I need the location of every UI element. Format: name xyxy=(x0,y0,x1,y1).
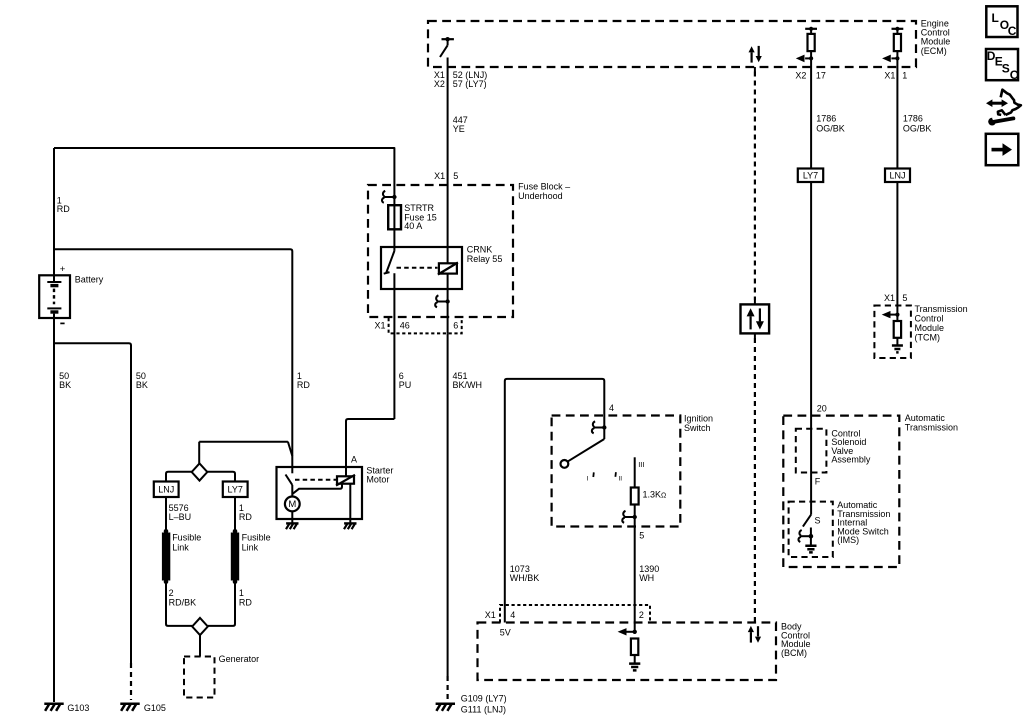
fuse STRTR 15 40A xyxy=(388,203,437,231)
serial data dashed line upper xyxy=(754,67,756,304)
svg-text:Fusible: Fusible xyxy=(172,533,201,543)
starter solenoid dashed link xyxy=(295,479,337,481)
ground G109 G111 xyxy=(436,693,507,714)
ECM driver output X2-17 xyxy=(796,27,817,67)
svg-text:5V: 5V xyxy=(500,628,511,638)
resistor 1.3K xyxy=(631,488,666,505)
wire branch to generator circuit xyxy=(199,442,292,456)
data link connector box xyxy=(741,304,770,333)
wire 447 YE from ECM to fuse block xyxy=(448,58,468,186)
wire relay coil to connector 6 xyxy=(447,274,449,334)
battery minus label xyxy=(60,322,64,324)
ECM internal switch (crank output) xyxy=(440,37,454,57)
generator box xyxy=(184,654,259,698)
relay coil xyxy=(438,263,458,275)
IMS terminal clip xyxy=(798,530,813,542)
splice diamond upper xyxy=(192,463,208,480)
wire diamond to LY7 xyxy=(207,472,235,482)
svg-text:17: 17 xyxy=(816,71,826,81)
ECM serial data double-arrow xyxy=(749,46,762,63)
wire resistor to BCM xyxy=(634,505,636,632)
svg-text:RD: RD xyxy=(239,597,252,607)
wire G105 dashed segment xyxy=(130,663,132,700)
label 1390 WH xyxy=(639,564,659,583)
svg-text:Transmission: Transmission xyxy=(905,423,958,433)
connector X1 dotted box under fuse block xyxy=(389,318,462,333)
wire negative branch to G105 xyxy=(54,343,131,663)
wire fuse to relay xyxy=(393,229,395,251)
label BCM xyxy=(781,622,811,658)
svg-text:Fusible: Fusible xyxy=(242,533,271,543)
relay switch xyxy=(384,251,395,274)
starter motor box xyxy=(277,467,363,519)
svg-text:Transmission: Transmission xyxy=(915,304,968,314)
svg-text:G103: G103 xyxy=(67,703,89,713)
ECM box (Engine Control Module) xyxy=(428,21,916,67)
wire diamond to LNJ xyxy=(166,472,192,482)
wire right link to lower diamond xyxy=(208,582,235,626)
svg-text:5: 5 xyxy=(639,530,644,540)
BCM box xyxy=(478,623,777,681)
fusible link right xyxy=(231,529,271,584)
wire LY7 to fusible link xyxy=(234,497,236,531)
pin labels X1 46 6 xyxy=(375,321,459,331)
svg-text:2: 2 xyxy=(639,610,644,620)
svg-text:BK/WH: BK/WH xyxy=(453,380,483,390)
wire to generator xyxy=(199,635,201,656)
svg-text:RD/BK: RD/BK xyxy=(169,597,197,607)
LOC icon xyxy=(986,6,1017,38)
svg-text:WH/BK: WH/BK xyxy=(510,573,540,583)
pin labels X1 52 / X2 57 xyxy=(434,70,487,89)
relay actuating dashed link xyxy=(397,267,438,269)
wire 447 into relay coil xyxy=(447,185,449,263)
ignition switch box xyxy=(552,416,681,527)
wire LNJ column down to TCM xyxy=(896,182,898,315)
pin label X1 1 xyxy=(884,71,907,81)
svg-text:G109 (LY7): G109 (LY7) xyxy=(461,693,507,703)
ignition switch arm and wiper xyxy=(561,428,605,468)
svg-text:X1: X1 xyxy=(485,610,496,620)
ground G105 xyxy=(120,703,166,713)
svg-text:20: 20 xyxy=(817,403,827,413)
position mark I xyxy=(587,472,594,482)
svg-text:I: I xyxy=(587,476,589,483)
svg-text:CRNK: CRNK xyxy=(467,245,493,255)
svg-text:Switch: Switch xyxy=(684,423,711,433)
label automatic transmission xyxy=(905,413,958,433)
svg-text:PU: PU xyxy=(399,380,412,390)
svg-text:4: 4 xyxy=(510,610,515,620)
svg-text:A: A xyxy=(351,454,357,464)
IMS contact stub xyxy=(810,528,812,537)
fuse block underhood box xyxy=(368,185,513,317)
wire battery negative to G103 xyxy=(53,318,55,702)
svg-text:C: C xyxy=(1008,24,1017,38)
svg-text:Ω: Ω xyxy=(661,492,666,499)
TCM signal ground xyxy=(892,346,903,353)
diagnostic icon xyxy=(986,90,1021,126)
label 5576 L-BU xyxy=(169,503,192,522)
svg-text:Assembly: Assembly xyxy=(831,455,871,465)
svg-text:Generator: Generator xyxy=(219,654,260,664)
wire 451 dashed to ground xyxy=(447,676,449,700)
svg-text:M: M xyxy=(288,499,296,510)
svg-text:BK: BK xyxy=(136,380,148,390)
svg-text:G111 (LNJ): G111 (LNJ) xyxy=(461,704,506,714)
wire LY7 column down to transmission xyxy=(810,182,812,515)
control solenoid valve assembly box xyxy=(796,429,827,473)
connector LNJ left xyxy=(154,482,179,498)
BCM resistor xyxy=(631,639,638,664)
label TCM xyxy=(915,304,968,343)
svg-text:5: 5 xyxy=(902,293,907,303)
svg-text:57 (LY7): 57 (LY7) xyxy=(453,79,487,89)
BCM serial data double-arrow xyxy=(748,626,761,643)
svg-text:RD: RD xyxy=(57,204,70,214)
label control solenoid valve assembly xyxy=(831,428,871,464)
wire relay switch to connector 46 xyxy=(393,273,395,419)
wire BCM 5V feed to ignition switch xyxy=(505,379,605,623)
wire battery feed to fuse xyxy=(54,148,394,205)
wire left link to lower diamond xyxy=(166,582,192,626)
svg-text:Underhood: Underhood xyxy=(518,191,563,201)
svg-text:Module: Module xyxy=(915,323,945,333)
svg-text:II: II xyxy=(619,476,623,483)
svg-text:+: + xyxy=(60,264,66,275)
svg-text:LNJ: LNJ xyxy=(158,485,174,495)
svg-text:Link: Link xyxy=(242,542,259,552)
BCM connector dotted box xyxy=(500,605,650,623)
relay CRNK 55 box xyxy=(381,245,502,289)
IMS box xyxy=(789,502,833,557)
wire battery main positive vertical xyxy=(53,148,55,275)
starter solenoid switch xyxy=(286,467,293,496)
svg-text:LY7: LY7 xyxy=(803,170,818,180)
svg-text:1786: 1786 xyxy=(903,114,923,124)
ignition lower terminal clip xyxy=(622,511,637,523)
label 1073 WH/BK xyxy=(510,564,540,583)
starter solenoid coil xyxy=(336,475,355,486)
svg-text:46: 46 xyxy=(400,321,410,331)
svg-text:Link: Link xyxy=(172,542,189,552)
wire LNJ to fusible link xyxy=(165,497,167,531)
svg-text:RD: RD xyxy=(297,380,310,390)
svg-text:F: F xyxy=(815,476,821,486)
svg-text:OG/BK: OG/BK xyxy=(816,123,845,133)
TCM resistor xyxy=(894,315,901,346)
label 2 RD/BK xyxy=(169,588,197,607)
automatic transmission box xyxy=(783,416,899,567)
terminal clip at fuse top xyxy=(382,191,397,203)
svg-text:(IMS): (IMS) xyxy=(837,535,859,545)
svg-text:S: S xyxy=(815,516,821,526)
serial data dashed line lower xyxy=(754,333,756,622)
svg-text:OG/BK: OG/BK xyxy=(903,123,932,133)
svg-text:1.3K: 1.3K xyxy=(643,489,662,499)
svg-text:X1: X1 xyxy=(884,293,895,303)
wire 451 BK/WH xyxy=(448,333,482,676)
label 50 BK left xyxy=(59,371,71,390)
fusible link left xyxy=(162,529,201,584)
svg-text:6: 6 xyxy=(453,321,458,331)
wire 1786 OG/BK right xyxy=(897,67,931,169)
label fuse block xyxy=(518,181,570,201)
svg-text:RD: RD xyxy=(239,512,252,522)
ground G103 xyxy=(44,703,89,713)
connector LNJ xyxy=(885,169,910,183)
pin label X1 5 fuse block xyxy=(434,171,458,181)
motor M xyxy=(285,497,300,512)
label ECM xyxy=(921,19,951,56)
label 1 RD lower xyxy=(239,588,252,607)
svg-text:BK: BK xyxy=(59,380,71,390)
label Starter Motor xyxy=(366,465,393,484)
wire motor to ground xyxy=(291,511,293,523)
wire down to splice diamond xyxy=(198,442,200,464)
svg-text:G105: G105 xyxy=(144,703,166,713)
position mark II xyxy=(615,472,622,482)
TCM input arrow xyxy=(882,311,900,318)
connector LY7 xyxy=(798,169,823,183)
splice diamond lower xyxy=(192,618,208,635)
svg-text:X1: X1 xyxy=(884,71,895,81)
svg-text:X1: X1 xyxy=(434,171,445,181)
svg-text:Relay 55: Relay 55 xyxy=(467,254,503,264)
svg-text:1786: 1786 xyxy=(816,114,836,124)
terminal clip below relay xyxy=(435,295,450,307)
svg-text:C: C xyxy=(1010,68,1019,82)
wire battery positive branch xyxy=(54,249,292,467)
svg-text:X1: X1 xyxy=(375,321,386,331)
svg-text:Fuse Block –: Fuse Block – xyxy=(518,181,570,191)
DESC icon xyxy=(986,49,1019,82)
svg-text:Motor: Motor xyxy=(366,475,389,485)
svg-text:YE: YE xyxy=(453,124,465,134)
svg-text:S: S xyxy=(1002,62,1010,76)
IMS switch arm xyxy=(803,515,811,527)
svg-text:1: 1 xyxy=(902,71,907,81)
svg-text:X2: X2 xyxy=(434,79,445,89)
ignition resistor wire xyxy=(634,457,636,487)
label ignition switch xyxy=(684,414,713,433)
label IMS xyxy=(837,500,890,545)
pin labels X1 4 2 BCM xyxy=(485,610,644,620)
pin label X1 5 TCM xyxy=(884,293,907,303)
connector LY7 left xyxy=(223,482,248,498)
svg-text:L: L xyxy=(992,11,999,25)
ignition terminal clip xyxy=(592,421,607,433)
BCM signal ground xyxy=(629,664,640,671)
svg-text:Battery: Battery xyxy=(75,274,104,284)
label 1 RD right column xyxy=(239,503,252,522)
svg-text:X2: X2 xyxy=(795,71,806,81)
svg-text:WH: WH xyxy=(639,573,654,583)
svg-text:5: 5 xyxy=(453,171,458,181)
IMS signal ground xyxy=(805,536,816,552)
ground under solenoid coil xyxy=(344,523,357,529)
svg-text:LY7: LY7 xyxy=(228,485,243,495)
svg-text:(ECM): (ECM) xyxy=(921,46,947,56)
pin label X2 17 xyxy=(795,71,826,81)
ECM driver output X1-1 xyxy=(882,27,903,67)
BCM input arrow xyxy=(618,628,637,635)
TCM box xyxy=(874,306,911,359)
svg-text:Automatic: Automatic xyxy=(905,413,946,423)
battery xyxy=(39,275,70,318)
label 1 RD top left xyxy=(57,195,70,214)
svg-text:40 A: 40 A xyxy=(404,221,422,231)
svg-text:(TCM): (TCM) xyxy=(915,333,941,343)
arrow icon xyxy=(986,134,1019,165)
ground under motor xyxy=(286,523,299,529)
label 1 RD mid xyxy=(297,371,310,390)
wire 6 PU to starter A xyxy=(346,371,411,476)
wire coil to ground xyxy=(349,484,351,524)
wire switch to motor and coil xyxy=(292,484,342,494)
label 50 BK right xyxy=(136,371,148,390)
svg-text:LNJ: LNJ xyxy=(889,170,905,180)
svg-text:(BCM): (BCM) xyxy=(781,648,807,658)
svg-text:L–BU: L–BU xyxy=(169,512,192,522)
wire 1786 OG/BK left xyxy=(811,67,845,169)
svg-text:Control: Control xyxy=(915,314,944,324)
svg-text:III: III xyxy=(638,460,644,469)
svg-text:4: 4 xyxy=(609,403,614,413)
